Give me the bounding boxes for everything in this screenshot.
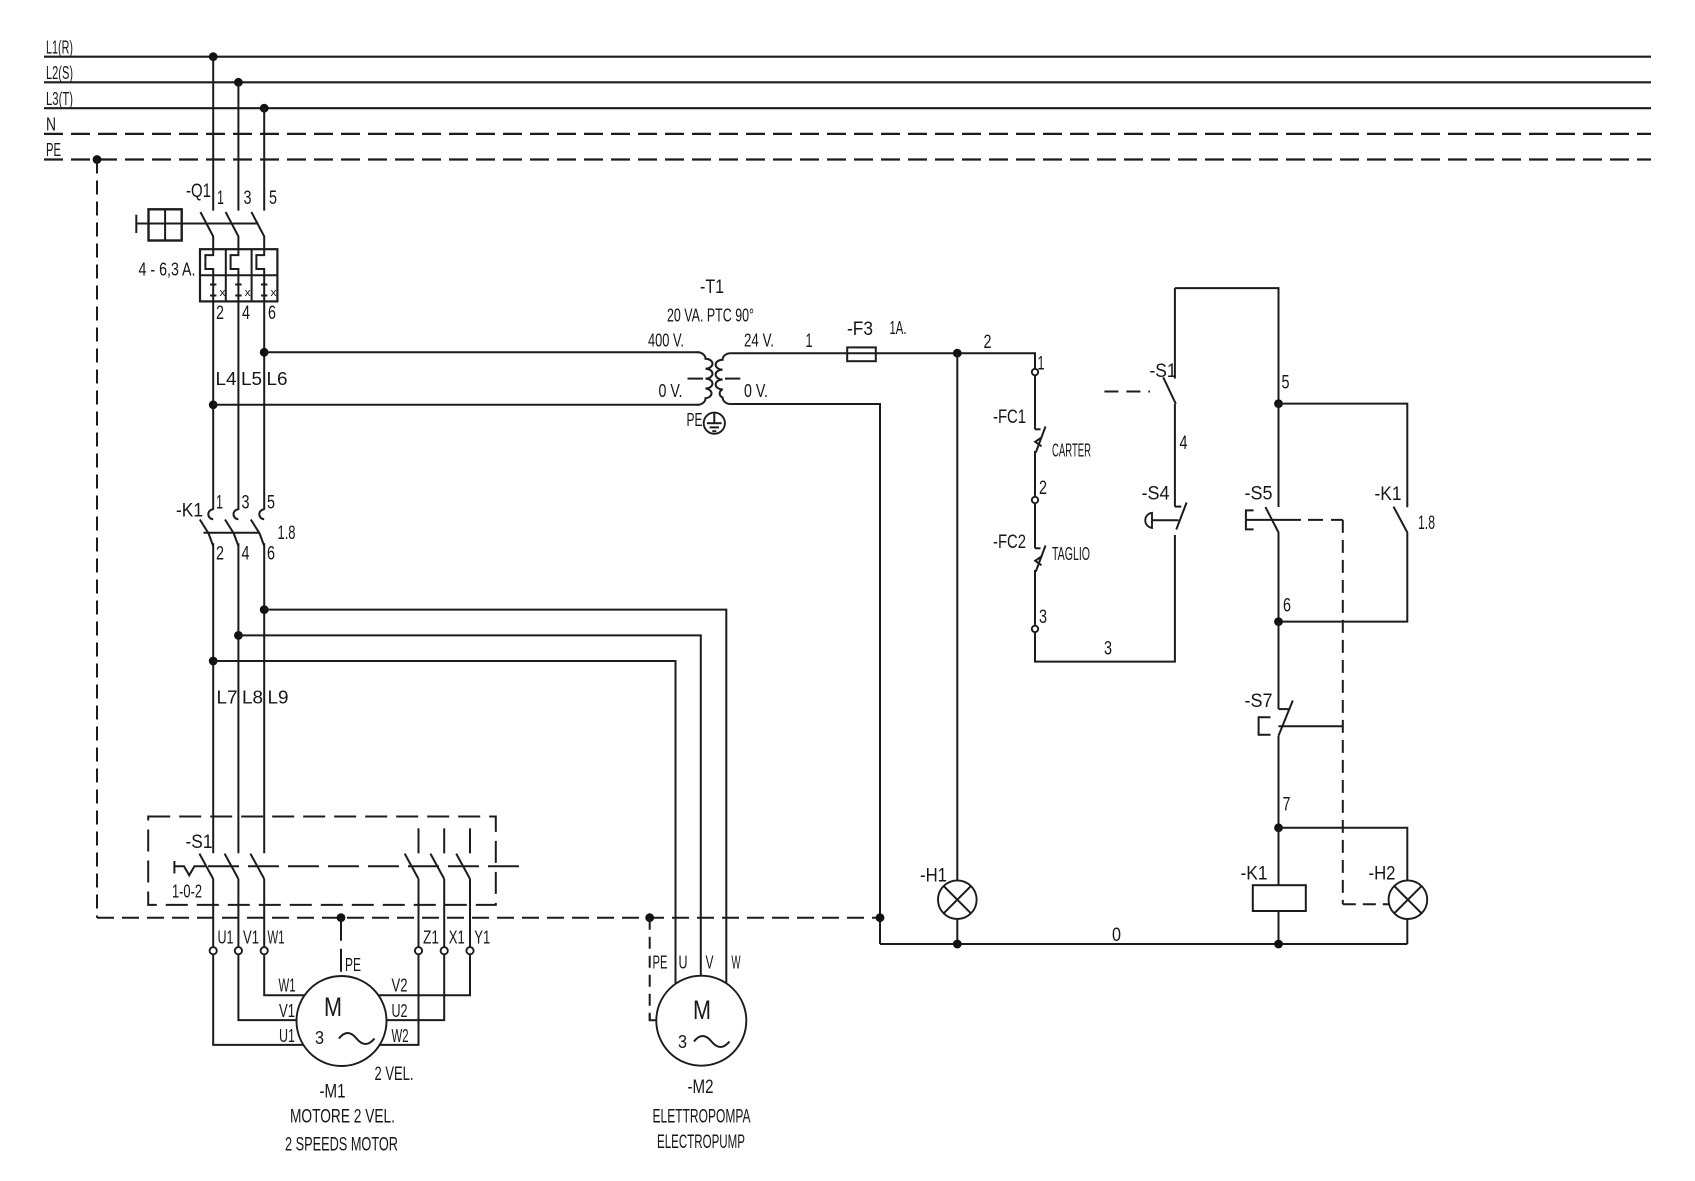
- svg-text:V2: V2: [392, 976, 408, 996]
- svg-text:3: 3: [1039, 607, 1047, 628]
- wire S7 blade to dashed branch: [1279, 725, 1343, 727]
- wire 0V primary to transformer: [213, 404, 699, 406]
- heater element pole 3: [256, 249, 264, 275]
- junction PE to M1: [337, 913, 346, 922]
- switch S7 contact: [1279, 701, 1293, 736]
- breaker Q1 handle box: [149, 209, 182, 240]
- svg-text:3: 3: [244, 188, 252, 209]
- wire M1 winding U1: [213, 954, 303, 1045]
- svg-text:L7: L7: [217, 688, 238, 708]
- wire node 7 to H2: [1279, 828, 1408, 881]
- svg-text:-M2: -M2: [688, 1077, 714, 1098]
- motor M1: [297, 976, 387, 1066]
- net L1(R): [44, 38, 1651, 58]
- junction tee to H1: [953, 349, 962, 358]
- heater element pole 2: [231, 249, 239, 275]
- svg-text:6: 6: [267, 544, 275, 565]
- svg-text:3: 3: [1104, 639, 1112, 660]
- selector contact X1: [430, 854, 444, 879]
- wire W1 lower: [263, 879, 265, 947]
- wire M1 winding U2 to X1: [386, 954, 444, 1020]
- junction PE tap: [93, 155, 102, 164]
- switch S7 latch bracket: [1259, 717, 1271, 735]
- wire S7 to node 7: [1278, 736, 1280, 828]
- junction L3 tap: [260, 104, 269, 113]
- wire 3 bottom run to S4: [1035, 535, 1175, 662]
- svg-text:-S4: -S4: [1142, 484, 1170, 505]
- wire M1 winding W2 to Z1: [380, 954, 419, 1045]
- breaker Q1 blade pole 1: [200, 212, 213, 249]
- svg-text:L8: L8: [242, 688, 263, 708]
- svg-text:X1: X1: [449, 928, 465, 948]
- wire X1 lower: [443, 879, 445, 947]
- svg-text:400 V.: 400 V.: [648, 331, 684, 351]
- svg-text:5: 5: [269, 188, 277, 209]
- junction L2 tap: [234, 78, 243, 87]
- svg-text:-T1: -T1: [700, 277, 724, 298]
- svg-text:1: 1: [217, 188, 224, 209]
- svg-text:M: M: [693, 995, 711, 1025]
- svg-text:-FC1: -FC1: [993, 407, 1026, 428]
- thermal overload box Q1: [200, 249, 277, 301]
- junction node 7: [1274, 823, 1283, 832]
- switch S5 link dashes: [1308, 519, 1343, 521]
- svg-text:24 V.: 24 V.: [744, 331, 774, 351]
- svg-text:L6: L6: [267, 369, 288, 389]
- junction L8 tee to M2: [234, 631, 243, 640]
- svg-text:3: 3: [242, 493, 250, 514]
- svg-text:3: 3: [678, 1032, 687, 1052]
- svg-text:2: 2: [216, 303, 224, 324]
- svg-text:U: U: [679, 953, 688, 973]
- wire L4 vertical Q1 to K1: [212, 301, 214, 510]
- svg-text:4: 4: [242, 544, 250, 565]
- net L2(S): [44, 63, 1651, 83]
- terminal W1: [261, 947, 268, 954]
- svg-text:20 VA. PTC 90°: 20 VA. PTC 90°: [667, 306, 754, 326]
- svg-text:W1: W1: [268, 928, 285, 948]
- wire FC2 upper: [1034, 503, 1036, 548]
- svg-text:-K1: -K1: [1375, 484, 1402, 505]
- lamp H1: [938, 880, 977, 919]
- svg-text:M: M: [324, 992, 342, 1022]
- selector speed2 stub Y1: [469, 828, 471, 853]
- wire node 5 to K1 aux branch: [1279, 404, 1408, 508]
- svg-text:PE: PE: [653, 953, 668, 973]
- svg-text:PE: PE: [687, 410, 703, 430]
- svg-text:-FC2: -FC2: [993, 532, 1026, 553]
- wire 24V secondary to fuse: [731, 352, 848, 354]
- svg-text:TAGLIO: TAGLIO: [1052, 544, 1090, 564]
- wire PE bottom horizontal: [97, 917, 880, 919]
- wire K1 aux to node 6: [1279, 533, 1408, 622]
- svg-text:2: 2: [1039, 478, 1047, 499]
- svg-text:L1(R): L1(R): [46, 38, 73, 58]
- svg-text:ELETTROPOMPA: ELETTROPOMPA: [653, 1107, 751, 1128]
- fuse F3: [847, 347, 876, 361]
- wire M1 winding V1: [238, 954, 296, 1020]
- wire L9 vertical: [263, 543, 265, 853]
- junction L4 to T1 0V: [209, 400, 218, 409]
- svg-text:L9: L9: [268, 688, 289, 708]
- svg-text:W2: W2: [392, 1026, 409, 1046]
- selector speed2 stub Z1: [418, 828, 420, 853]
- junction node 6: [1274, 617, 1283, 626]
- wire phase 1 drop to Q1: [212, 57, 214, 211]
- switch S1 contact (control): [1163, 288, 1176, 404]
- wire L8 vertical: [237, 543, 239, 853]
- svg-text:PE: PE: [345, 955, 361, 975]
- limit switch FC2 pin 2 terminal: [1032, 497, 1038, 503]
- breaker Q1 blade pole 3: [251, 212, 264, 249]
- wire U1 lower: [212, 879, 214, 947]
- junction 0V at PE bus: [876, 913, 885, 922]
- svg-text:ELECTROPUMP: ELECTROPUMP: [657, 1132, 745, 1153]
- svg-text:L2(S): L2(S): [46, 63, 73, 83]
- switch S5 link line: [1246, 519, 1301, 521]
- svg-text:L3(T): L3(T): [46, 89, 73, 109]
- svg-text:6: 6: [268, 303, 276, 324]
- svg-text:2 SPEEDS MOTOR: 2 SPEEDS MOTOR: [285, 1135, 398, 1156]
- limit switch FC1 contact: [1035, 427, 1046, 453]
- selector contact W1: [250, 854, 264, 879]
- transformer T1 secondary coil: [716, 353, 731, 404]
- wire FC1 upper: [1034, 375, 1036, 429]
- svg-text:U2: U2: [392, 1001, 408, 1021]
- svg-text:-S7: -S7: [1245, 691, 1273, 712]
- contact K1 aux blade: [1394, 507, 1408, 533]
- svg-text:2 VEL.: 2 VEL.: [375, 1064, 414, 1085]
- svg-text:V1: V1: [279, 1001, 295, 1021]
- switch S5 contact blade: [1265, 507, 1278, 533]
- svg-text:Y1: Y1: [474, 928, 490, 948]
- wire PE vertical: [96, 160, 98, 918]
- terminal X1: [441, 947, 448, 954]
- svg-text:W1: W1: [279, 976, 296, 996]
- wire L7 vertical: [212, 543, 214, 853]
- selector switch S1 enclosure: [148, 817, 496, 905]
- contactor K1 pole 2: [225, 509, 238, 546]
- contactor K1 pole 3: [251, 509, 264, 546]
- selector contact V1: [225, 854, 239, 879]
- svg-text:-M1: -M1: [320, 1082, 346, 1103]
- transformer T1 secondary mid tap: [725, 378, 740, 380]
- junction PE to M2: [645, 913, 654, 922]
- wire L6 vertical Q1 to K1: [263, 301, 265, 510]
- wire Y1 lower: [469, 879, 471, 947]
- svg-text:CARTER: CARTER: [1052, 441, 1091, 461]
- svg-text:0 V.: 0 V.: [744, 381, 768, 401]
- wire M2 PE elbow: [650, 1014, 657, 1020]
- svg-text:7: 7: [1283, 795, 1291, 816]
- svg-text:4 - 6,3 A.: 4 - 6,3 A.: [139, 260, 196, 280]
- overload indicator pole 3: [261, 275, 277, 301]
- wire node 7 to K1 coil: [1278, 828, 1280, 885]
- svg-text:V1: V1: [243, 928, 259, 948]
- terminal Z1: [415, 947, 422, 954]
- selector handle: [174, 861, 206, 875]
- svg-text:-F3: -F3: [847, 319, 873, 340]
- wire top loop to node 5: [1175, 288, 1279, 404]
- svg-text:-S5: -S5: [1245, 484, 1273, 505]
- svg-text:0 V.: 0 V.: [659, 381, 683, 401]
- junction node 5: [1274, 399, 1283, 408]
- wire down to H1: [956, 353, 958, 880]
- overload indicator pole 1: [210, 275, 226, 301]
- svg-text:MOTORE 2 VEL.: MOTORE 2 VEL.: [290, 1107, 395, 1128]
- svg-text:-S1: -S1: [186, 832, 213, 853]
- breaker Q1 mechanical link: [136, 223, 258, 225]
- net PE: [44, 140, 1651, 160]
- bus 0: [880, 943, 1407, 945]
- dashed wire to H2: [1343, 520, 1389, 904]
- junction H1 bus: [953, 940, 962, 949]
- mechanical link dashes S1: [1104, 391, 1150, 393]
- selector contact Y1: [456, 854, 470, 879]
- junction K1 coil bus: [1274, 940, 1283, 949]
- svg-text:Z1: Z1: [423, 928, 439, 948]
- breaker Q1 blade pole 2: [226, 212, 239, 249]
- wire fuse to FC1 corner: [876, 353, 1035, 369]
- svg-text:4: 4: [1180, 433, 1188, 454]
- svg-text:U1: U1: [218, 928, 234, 948]
- breaker Q1 handle bar: [135, 215, 137, 233]
- net L3(T): [44, 89, 1651, 109]
- wire L9 to M2 W: [264, 610, 726, 984]
- svg-text:x: x: [220, 287, 227, 299]
- overload indicator pole 2: [235, 275, 251, 301]
- motor M2: [656, 976, 746, 1066]
- wire H1 to bus: [956, 919, 958, 944]
- svg-text:0: 0: [1112, 925, 1121, 946]
- contactor K1 mechanical link: [204, 532, 260, 534]
- svg-text:U1: U1: [279, 1026, 295, 1046]
- wire H2 to bus: [1406, 919, 1408, 944]
- relay coil K1: [1253, 885, 1306, 911]
- wire FC2 to pin 3: [1034, 570, 1036, 626]
- terminal U1: [210, 947, 217, 954]
- svg-text:1: 1: [216, 493, 223, 514]
- selector contact U1: [199, 854, 213, 879]
- wire S5 to node 6: [1278, 533, 1280, 622]
- svg-text:L4: L4: [216, 369, 237, 389]
- junction L7 tee to M2: [209, 657, 218, 666]
- wire M1 winding V2 to Y1: [378, 954, 470, 995]
- net N: [44, 115, 1651, 135]
- svg-text:5: 5: [267, 493, 275, 514]
- wire S4 to S1: [1174, 404, 1176, 507]
- wire Z1 lower: [418, 879, 420, 947]
- wire K1 coil to bus: [1278, 911, 1280, 944]
- terminal Y1: [466, 947, 473, 954]
- wire M1 winding W1: [264, 954, 305, 995]
- junction L9 tee to M2: [260, 605, 269, 614]
- wire V1 lower: [237, 879, 239, 947]
- switch S5 latch bracket: [1246, 510, 1254, 529]
- selector contact Z1: [405, 854, 419, 879]
- contactor K1 pole 1: [200, 509, 213, 546]
- svg-text:2: 2: [984, 332, 992, 353]
- wire L5 vertical Q1 to K1: [237, 301, 239, 510]
- pushbutton S4 contact: [1175, 503, 1187, 530]
- limit switch FC1 pin 1 terminal: [1032, 369, 1038, 375]
- limit switch FC2 contact: [1035, 546, 1046, 572]
- heater element pole 1: [205, 249, 213, 275]
- junction L1 tap: [209, 52, 218, 61]
- svg-text:-K1: -K1: [1241, 864, 1268, 885]
- transformer T1 primary coil: [698, 352, 713, 405]
- svg-text:-S1: -S1: [1150, 361, 1177, 382]
- svg-text:5: 5: [1282, 373, 1290, 394]
- pushbutton S4 actuator: [1145, 513, 1178, 528]
- svg-text:-H1: -H1: [920, 866, 947, 887]
- lamp H2: [1389, 880, 1428, 919]
- svg-text:3: 3: [315, 1028, 324, 1048]
- selector mechanical link dashes: [208, 865, 521, 867]
- svg-text:L5: L5: [241, 369, 262, 389]
- svg-text:N: N: [46, 115, 56, 135]
- svg-text:6: 6: [1283, 596, 1291, 617]
- wire 400V to transformer: [264, 351, 699, 353]
- svg-text:PE: PE: [46, 140, 61, 160]
- svg-text:1.8: 1.8: [1418, 513, 1435, 534]
- svg-text:1A.: 1A.: [890, 318, 907, 338]
- wire node 6 to S7: [1278, 622, 1280, 710]
- svg-text:2: 2: [216, 544, 224, 565]
- svg-text:V: V: [706, 953, 714, 973]
- wire phase 3 drop to Q1: [263, 108, 265, 210]
- pin 3 terminal: [1032, 626, 1038, 632]
- wire node5 to S5: [1278, 404, 1280, 507]
- svg-text:1.8: 1.8: [278, 523, 296, 544]
- svg-text:4: 4: [242, 303, 250, 324]
- wire 0V secondary return: [731, 404, 880, 944]
- wire L7 to M2 U: [213, 661, 675, 983]
- svg-text:-K1: -K1: [176, 501, 203, 522]
- transformer PE ground symbol: [704, 413, 725, 434]
- svg-text:x: x: [271, 287, 278, 299]
- junction L6 to T1 400V: [260, 348, 269, 357]
- terminal V1: [235, 947, 242, 954]
- svg-text:W: W: [732, 953, 741, 973]
- svg-text:x: x: [245, 287, 252, 299]
- svg-text:-H2: -H2: [1369, 864, 1396, 885]
- wire FC1 to FC2: [1034, 451, 1036, 497]
- svg-text:-Q1: -Q1: [186, 181, 211, 202]
- svg-text:1-0-2: 1-0-2: [172, 882, 202, 902]
- svg-text:1: 1: [806, 331, 813, 352]
- wire phase 2 drop to Q1: [237, 82, 239, 210]
- transformer T1 primary mid tap: [688, 378, 704, 380]
- wire M1 PE stem: [340, 918, 342, 977]
- wire L8 to M2 V: [238, 635, 700, 975]
- selector speed2 stub X1: [443, 828, 445, 853]
- wire M2 PE stem dashed: [649, 918, 651, 1021]
